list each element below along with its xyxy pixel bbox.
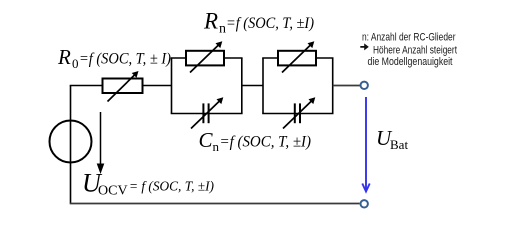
svg-text:OCV: OCV [98, 184, 128, 199]
wire: bottom rail [70, 203, 360, 205]
svg-text:C: C [199, 128, 214, 152]
annotation arrow glyph [360, 43, 369, 50]
wire: top rail from source to R0 [70, 85, 103, 87]
label Cn value [199, 128, 312, 154]
node: negative terminal [361, 200, 368, 207]
svg-text:=f (SOC, T, ± I): =f (SOC, T, ± I) [79, 51, 171, 68]
wire: left vertical branch [70, 86, 72, 204]
arrow: U_Bat voltage arrow (blue) [362, 97, 369, 192]
svg-text:0: 0 [72, 56, 79, 71]
capacitor Cn (block 2) [283, 97, 315, 128]
arrow: U_OCV voltage arrow [97, 112, 105, 174]
label U_Bat [376, 126, 408, 152]
resistor Rn (block 1) [186, 41, 224, 72]
svg-text:=f (SOC, T, ±I): =f (SOC, T, ±I) [220, 134, 312, 151]
svg-text:die Modellgenauigkeit: die Modellgenauigkeit [368, 56, 453, 68]
svg-text:n: n [213, 139, 220, 154]
resistor R0 [103, 71, 143, 102]
svg-text:R: R [57, 45, 71, 69]
annotation: n explanation text [362, 32, 457, 68]
voltage source U_OCV [50, 121, 92, 163]
svg-text:= f (SOC, T, ±I): = f (SOC, T, ±I) [129, 180, 214, 195]
svg-text:Bat: Bat [390, 137, 408, 152]
svg-text:n: Anzahl der RC-Glieder: n: Anzahl der RC-Glieder [362, 32, 456, 44]
capacitor Cn (block 1) [191, 97, 223, 128]
label R0 value [57, 45, 171, 71]
label Rn value [203, 9, 314, 37]
svg-text:=f (SOC, T, ±I): =f (SOC, T, ±I) [226, 15, 314, 32]
svg-text:R: R [203, 9, 218, 34]
wire: rail from R0 to RC block 1 [143, 85, 172, 87]
label U_OCV value [82, 169, 214, 199]
wire: rail to positive terminal [333, 85, 360, 87]
RC block 1 frame wires [171, 58, 243, 114]
node: positive terminal [361, 82, 368, 89]
wire: connector between RC blocks [242, 85, 263, 87]
RC block 2 frame wires [262, 58, 333, 114]
resistor Rn (block 2) [278, 41, 316, 72]
svg-text:n: n [219, 22, 226, 37]
